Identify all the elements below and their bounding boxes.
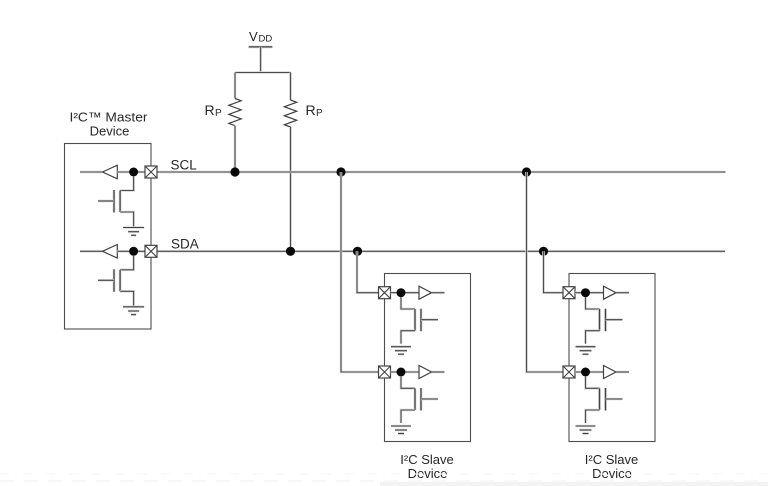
pad SCL slave1 I/O pin — [379, 366, 391, 378]
ground SCL slave1 — [391, 426, 411, 434]
node SCL slave1 tap — [336, 167, 345, 176]
node SCL-RP1 junction — [230, 167, 239, 176]
node SCL slave1 junction dot — [397, 368, 406, 377]
resistor RP2 (SDA pull-up) — [284, 100, 296, 127]
power VDD label — [249, 29, 272, 45]
label I2C Slave Device 1 — [400, 452, 453, 481]
label RP1 — [205, 102, 223, 119]
wire SDA master FET source — [120, 291, 134, 306]
svg-text:I²C Slave: I²C Slave — [585, 452, 638, 467]
wire SCL bus — [157, 171, 726, 174]
wire SDA slave1 pad to buffer — [391, 291, 420, 294]
wire SDA slave2 buffer output stub — [616, 291, 629, 294]
node SDA slave1 tap — [353, 247, 362, 256]
power VDD rail bar — [249, 46, 273, 49]
svg-text:R: R — [205, 102, 215, 118]
ground SDA slave1 — [391, 347, 411, 355]
I2C master device box — [65, 144, 152, 330]
svg-text:Device: Device — [408, 466, 448, 481]
pad SCL master I/O pin — [145, 166, 157, 178]
transistor SDA slave2 open-drain NMOS — [600, 309, 623, 332]
wire RP2 bottom lead to SDA (crosses SCL) — [289, 127, 292, 251]
svg-text:I²C Slave: I²C Slave — [400, 452, 453, 467]
buffer SCL input (left-pointing) — [103, 165, 118, 179]
svg-text:P: P — [215, 108, 222, 119]
wire SDA slave2 FET source — [586, 331, 600, 344]
label I2C Slave Device 2 — [585, 452, 638, 481]
wire SCL master FET source — [120, 212, 134, 227]
node SDA slave2 junction dot — [581, 288, 590, 297]
wire pull-up tee rail — [235, 71, 291, 74]
buffer SCL slave1 (right-pointing) — [419, 366, 432, 379]
buffer SDA slave1 (right-pointing) — [419, 286, 432, 299]
transistor SDA slave1 open-drain NMOS — [415, 309, 438, 332]
svg-text:Device: Device — [592, 466, 632, 481]
wire SCL slave2 FET drain — [586, 376, 600, 388]
transistor SCL master open-drain NMOS — [98, 190, 120, 213]
wire SCL slave1 FET source — [401, 410, 415, 423]
wire SCL slave1 pad to buffer — [391, 371, 420, 374]
wire SCL buffer input stub — [80, 171, 103, 174]
wire SDA slave2 FET drain — [586, 297, 600, 309]
wire SCL buffer to pad — [117, 171, 145, 174]
buffer SDA slave2 (right-pointing) — [604, 286, 617, 299]
resistor RP1 (SCL pull-up) — [229, 99, 241, 126]
svg-text:P: P — [316, 108, 323, 119]
buffer SDA input (left-pointing) — [103, 245, 118, 259]
pad SDA slave2 I/O pin — [563, 287, 575, 299]
node SCL slave2 junction dot — [581, 368, 590, 377]
wire RP2 top lead — [289, 73, 292, 101]
transistor SDA master open-drain NMOS — [98, 269, 120, 292]
ground SDA slave2 — [576, 347, 596, 355]
svg-text:I²C™ Master: I²C™ Master — [70, 110, 149, 125]
svg-text:Device: Device — [90, 124, 130, 139]
ground SCL master — [123, 228, 144, 236]
wire SDA to slave1 pad — [357, 251, 379, 292]
buffer SCL slave2 (right-pointing) — [604, 366, 617, 379]
wire SCL slave2 pad to buffer — [575, 371, 604, 374]
svg-text:SCL: SCL — [171, 158, 198, 173]
wire RP1 bottom lead to SCL — [234, 126, 237, 172]
node SCL master junction dot — [129, 168, 138, 177]
wire SCL to slave2 pad — [527, 172, 564, 372]
wire SDA bus — [157, 250, 725, 253]
wire SDA slave1 FET drain — [401, 297, 415, 309]
I2C slave device 2 box — [569, 274, 655, 442]
wire SDA buffer input stub — [80, 250, 103, 253]
I2C slave device 1 box — [385, 274, 471, 442]
node SDA-RP2 junction — [286, 247, 295, 256]
transistor SCL slave2 open-drain NMOS — [600, 388, 623, 411]
wire SCL master FET drain — [120, 176, 134, 190]
wire SDA slave1 FET source — [401, 331, 415, 344]
wire SDA master FET drain — [120, 256, 134, 270]
node SDA slave1 junction dot — [397, 288, 406, 297]
wire SDA to slave2 pad — [544, 251, 564, 292]
wire SCL slave2 FET source — [586, 410, 600, 423]
node SDA slave2 tap — [539, 247, 548, 256]
wire SDA buffer to pad — [117, 250, 145, 253]
pad SCL slave2 I/O pin — [563, 366, 575, 378]
pad SDA slave1 I/O pin — [379, 287, 391, 299]
scan artifact bottom band — [0, 474, 768, 486]
wire SCL slave1 FET drain — [401, 376, 415, 388]
transistor SCL slave1 open-drain NMOS — [415, 388, 438, 411]
label SDA — [171, 237, 199, 252]
svg-text:DD: DD — [259, 34, 273, 45]
wire SCL slave2 buffer output stub — [616, 371, 629, 374]
wire SCL slave1 buffer output stub — [432, 371, 445, 374]
svg-text:R: R — [306, 102, 316, 118]
wire VDD stem — [259, 47, 262, 73]
label RP2 — [306, 102, 324, 119]
svg-text:V: V — [249, 29, 258, 44]
ground SCL slave2 — [576, 426, 596, 434]
label I2C Master Device — [70, 110, 149, 139]
ground SDA master — [123, 307, 144, 315]
wire SCL to slave1 pad — [341, 172, 379, 372]
wire SDA slave2 pad to buffer — [575, 291, 604, 294]
node SCL slave2 tap — [522, 167, 531, 176]
wire RP1 top lead — [234, 73, 237, 99]
label SCL — [171, 158, 198, 173]
svg-text:SDA: SDA — [171, 237, 199, 252]
node SDA master junction dot — [129, 247, 138, 256]
pad SDA master I/O pin — [145, 245, 157, 257]
wire SDA slave1 buffer output stub — [432, 291, 445, 294]
